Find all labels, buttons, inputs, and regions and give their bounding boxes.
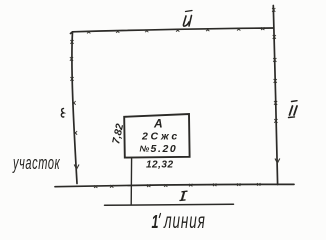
svg-text:№: № [140,144,150,154]
svg-text:участок: участок [12,153,60,174]
svg-text:12,32: 12,32 [146,160,174,171]
svg-text:1: 1 [152,213,159,233]
svg-text:линия: линия [163,209,206,233]
svg-text:5.20: 5.20 [151,143,178,155]
svg-text:2Сжс: 2Сжс [141,131,180,143]
svg-text:A: A [153,117,163,131]
